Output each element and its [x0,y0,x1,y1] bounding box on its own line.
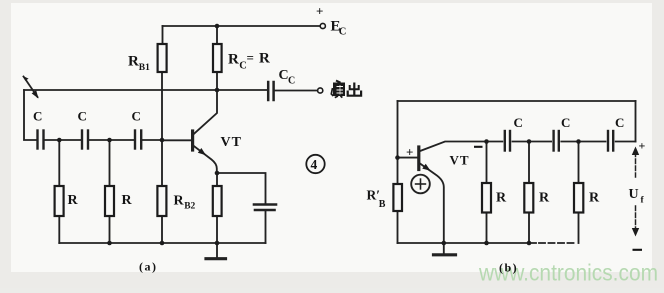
svg-text:C: C [132,109,141,124]
svg-text:VT: VT [450,153,470,168]
svg-text:+: + [406,145,413,160]
svg-text:C: C [288,76,295,87]
svg-text:B1: B1 [139,63,150,73]
svg-text:R: R [589,191,600,206]
svg-text:(a): (a) [139,260,158,274]
svg-text:R: R [68,193,79,208]
svg-text:VT: VT [221,135,242,150]
svg-text:B2: B2 [184,202,195,212]
svg-text:+: + [639,139,646,153]
svg-text:C: C [78,109,87,124]
svg-text:C: C [33,109,42,124]
svg-text:(b): (b) [499,261,518,275]
svg-text:R: R [174,194,185,209]
svg-text:C: C [561,115,570,130]
svg-text:U: U [629,187,639,202]
svg-text:C: C [615,115,624,130]
svg-text:B: B [379,199,386,210]
svg-text:R: R [496,191,507,206]
svg-text:R: R [228,52,239,68]
svg-text:R: R [539,191,550,206]
svg-text:+: + [316,4,323,19]
svg-text:R: R [259,51,270,67]
svg-text:R: R [128,54,139,70]
svg-text:C: C [339,27,347,38]
svg-text:R: R [122,193,133,208]
svg-text:C: C [514,115,523,130]
svg-text:=: = [247,50,254,65]
svg-text:4: 4 [311,157,318,172]
